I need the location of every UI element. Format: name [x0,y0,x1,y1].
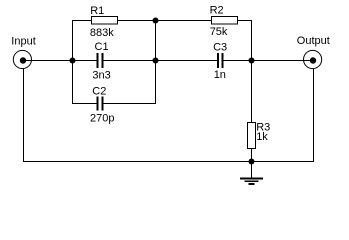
junction node B top [153,18,159,24]
svg-text:C2: C2 [92,86,106,98]
svg-text:1k: 1k [256,131,268,143]
junction ground bus [249,159,255,165]
input connector J1 [13,50,31,68]
capacitor C2 [98,97,103,111]
svg-text:270p: 270p [90,113,114,125]
svg-text:C1: C1 [95,41,109,53]
wire: output ground drop [313,69,315,162]
output connector J2 [304,50,322,68]
wire: node B vertical x=155 [155,20,157,104]
wire: main row input to C1 [23,60,97,62]
resistor R2 [212,17,238,25]
wire: input ground drop [23,69,25,162]
wire: top row R2 to right corner [237,20,252,22]
wire: node A vertical x=72 [72,20,74,104]
capacitor C3 [218,53,223,68]
wire: main row C1 to C3 [104,60,218,62]
ground [240,179,263,184]
svg-text:Output: Output [297,35,330,47]
wire: top row node A to R1 [72,20,92,22]
wire: bottom ground bus [23,161,314,163]
svg-text:R1: R1 [90,5,104,17]
junction node A [70,58,76,64]
wire: top row R1 to R2 [118,20,212,22]
wire: main row C3 to output [224,60,314,62]
svg-text:883k: 883k [90,27,114,39]
svg-text:1n: 1n [214,69,226,81]
svg-text:R2: R2 [210,4,224,16]
wire: C2 row left [72,103,97,105]
junction node B main [153,58,159,64]
resistor R1 [92,17,118,25]
wire: C2 row right [104,103,157,105]
wire: right vertical R2 corner down to R3 top [251,20,253,123]
wire: R3 bottom to ground bus [251,149,253,162]
svg-text:3n3: 3n3 [92,70,110,82]
junction output node [249,58,255,64]
svg-text:C3: C3 [213,41,227,53]
resistor R3 [248,123,256,149]
svg-text:Input: Input [11,36,35,48]
svg-text:75k: 75k [210,26,228,38]
wire: ground symbol stem [251,162,253,179]
capacitor C1 [98,53,103,68]
